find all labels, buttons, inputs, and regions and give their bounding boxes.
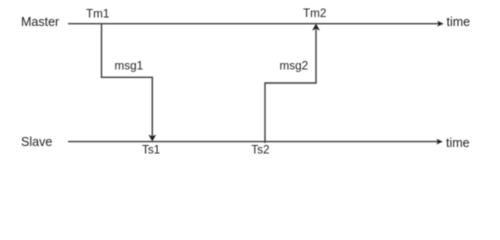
svg-text:Tm1: Tm1 — [86, 8, 109, 21]
svg-text:msg2: msg2 — [280, 59, 309, 72]
slave timeline arrowhead (time axis) — [436, 139, 442, 145]
svg-text:Master: Master — [21, 15, 59, 29]
svg-text:Ts2: Ts2 — [251, 144, 269, 157]
svg-text:Slave: Slave — [21, 135, 52, 149]
svg-text:Ts1: Ts1 — [142, 144, 160, 157]
arrowhead msg1 (down, at Ts1) — [148, 135, 156, 142]
arrowhead msg2 (up, at Tm2) — [312, 24, 320, 31]
svg-text:time: time — [447, 15, 471, 29]
svg-text:time: time — [446, 136, 470, 150]
svg-text:Tm2: Tm2 — [303, 7, 326, 20]
master timeline arrowhead (time axis) — [437, 21, 443, 27]
slave timeline wire — [68, 141, 438, 143]
wire msg2 (Ts2 to Tm2) — [265, 30, 316, 144]
wire msg1 (Tm1 to Ts1) — [102, 24, 153, 136]
master timeline wire — [68, 23, 439, 25]
svg-text:msg1: msg1 — [115, 59, 144, 72]
